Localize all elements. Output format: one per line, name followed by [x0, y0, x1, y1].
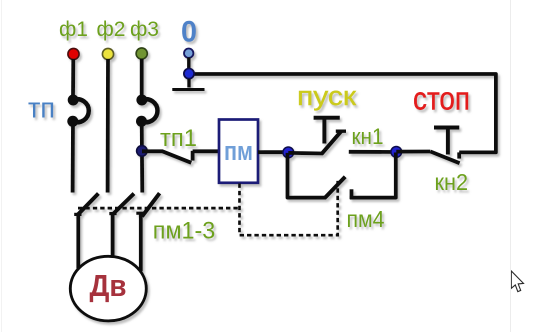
motor Дв circle: [70, 256, 146, 321]
thermal heater тп on ф3: [136, 95, 157, 127]
wire ф3 to contact: [140, 122, 144, 193]
wire кн1 to node B: [349, 150, 397, 154]
node B junction dot: [391, 147, 402, 158]
wire neutral stem: [187, 58, 190, 71]
svg-text:кн1: кн1: [352, 124, 384, 149]
wire node A down (пм4 branch left): [288, 153, 327, 198]
wire пм3 lower: [139, 215, 143, 272]
svg-text:ф2: ф2: [97, 18, 126, 41]
svg-text:ф1: ф1: [59, 18, 88, 41]
wire пм2 lower: [111, 214, 115, 256]
svg-text:тп1: тп1: [160, 125, 197, 152]
wire стоп loop to neutral: [189, 74, 496, 152]
contact пм3 blade: [136, 193, 159, 216]
mechanical link dashed from coil: [240, 178, 338, 235]
wire ф1 to contact: [71, 122, 75, 193]
thermal heater тп on ф1: [67, 95, 88, 127]
svg-text:0: 0: [181, 16, 197, 49]
terminal dot ф1 (red): [68, 48, 79, 59]
button кн2 actuator: [434, 128, 459, 155]
mechanical link dashed пм1-3: [78, 207, 240, 210]
mouse cursor: [511, 271, 523, 292]
wire node A to кн1: [288, 151, 323, 155]
wire пм1 lower: [76, 215, 80, 269]
coil пм box: [219, 120, 258, 183]
contact тп1 blade: [142, 151, 191, 163]
svg-text:ф3: ф3: [130, 18, 159, 41]
svg-text:пм4: пм4: [347, 206, 385, 232]
svg-text:пуск: пуск: [297, 81, 356, 111]
node A junction dot: [283, 147, 294, 158]
contact пм2 blade: [109, 194, 134, 215]
button пуск actuator: [314, 118, 340, 144]
contact кн2 fixed post: [457, 152, 461, 158]
node neutral junction dot: [184, 69, 194, 79]
contact тп1 fixed post: [191, 151, 195, 161]
contact пм4 fixed post: [350, 189, 354, 199]
svg-text:пм1-3: пм1-3: [153, 218, 216, 245]
node junction on ф3: [137, 146, 148, 157]
contact пм4 blade: [325, 177, 345, 198]
wire ф2 stem: [106, 59, 110, 193]
wire пм4 right to node B: [350, 153, 396, 198]
ground symbol: [172, 79, 204, 90]
svg-text:Дв: Дв: [90, 268, 127, 303]
wire ф3 upper stem: [140, 59, 144, 100]
terminal dot 0 (light blue): [184, 49, 193, 58]
svg-text:кн2: кн2: [435, 169, 469, 195]
terminal dot ф3 (olive): [136, 48, 147, 59]
svg-text:пм: пм: [224, 136, 253, 166]
svg-text:тп: тп: [28, 93, 55, 125]
wire node B to кн2: [396, 150, 430, 154]
wire ф1 upper stem: [71, 59, 75, 100]
terminal dot ф2 (yellow): [102, 48, 113, 59]
contact кн1 blade: [322, 131, 346, 154]
wire тп1 to coil пм: [193, 149, 219, 153]
contact кн2 blade: [430, 152, 459, 164]
svg-text:стоп: стоп: [413, 81, 470, 117]
wire coil to node A: [258, 150, 289, 154]
contact пм1 blade: [74, 194, 98, 216]
